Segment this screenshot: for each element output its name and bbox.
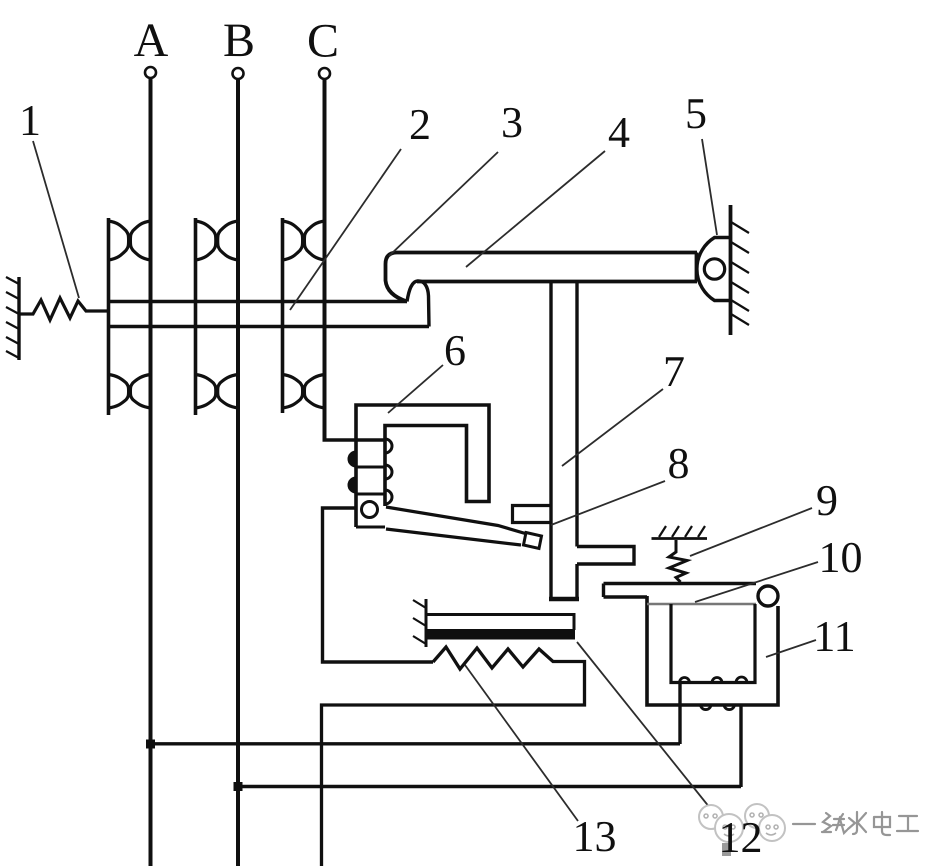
spring 1 [19,298,108,320]
latch notch on link [513,506,552,523]
trip lever pivot pin [758,586,778,606]
spring 9 anchor hatching [659,526,705,537]
contact bar phase A [107,218,111,415]
wire B to release coil [238,785,741,788]
main contact A upper [109,221,151,260]
svg-text:4: 4 [608,108,630,157]
coil terminal left [678,683,681,745]
link 7 right line upper [575,282,578,547]
left wall anchor [17,277,20,360]
svg-text:12: 12 [719,813,763,862]
svg-text:3: 3 [501,98,523,147]
leader line 13 [465,665,578,821]
leader line 4 [466,151,605,267]
coil divider 2 [356,493,385,496]
spring 9 anchor line [652,537,708,540]
leader line 6 [388,365,443,413]
armature 8 tip [524,533,542,549]
wire A to release coil [151,742,681,745]
coil bottom cap [356,526,385,529]
svg-text:A: A [134,14,169,67]
coil left turns [349,452,356,492]
main contact B lower [196,375,239,409]
svg-text:5: 5 [685,89,707,138]
leader line 11 [766,640,816,657]
link 7 T bar [577,547,634,565]
right wall hatching [731,222,749,325]
lever 4 end cap [695,253,699,282]
leader line 8 [551,481,665,525]
heater 13 resistor and return wire [322,647,585,866]
node B terminal [233,68,244,79]
bimetal 12 clamp [425,599,428,647]
leader line 3 [389,152,498,256]
bimetal 12 top layer [426,615,574,631]
svg-text:8: 8 [668,439,690,488]
pivot 5 bracket [697,238,730,301]
leader line 1 [33,141,79,298]
lever 4 bottom edge [417,280,697,284]
leader line 10 [695,562,818,602]
coil terminal right [739,705,742,787]
svg-text:2: 2 [409,100,431,149]
crossbar rod 3 top edge [107,300,407,304]
trip lever 10 bar [604,584,757,598]
node C terminal [319,68,330,79]
main contact B upper [196,221,239,260]
crossbar hook [407,281,429,327]
svg-text:13: 13 [573,812,617,861]
armature 8 bottom edge [386,529,521,545]
leader line 12 [577,642,718,818]
wire phase A line [149,79,153,866]
svg-text:6: 6 [444,326,466,375]
leader line 5 [702,139,717,235]
right wall anchor [729,205,733,335]
link 7 right line lower [575,564,578,599]
release 11 outer frame [647,596,778,705]
coil turns lower [701,705,735,710]
main contact A lower [109,375,151,409]
contact bar phase C [281,218,285,413]
spring 9 [669,540,687,582]
bimetal clamp hatching [413,600,426,644]
svg-text:10: 10 [819,533,863,582]
coil divider 1 [356,466,385,469]
leader line 2 [290,149,401,310]
lever 4 top and left hook [386,253,698,302]
electromagnet 6 core outline [356,405,489,527]
bimetal 12 lower black layer [426,629,575,640]
pivot 5 pin [704,259,724,279]
link 7 left line [549,282,552,599]
svg-text:C: C [307,15,339,68]
junction dot on B [234,782,243,791]
main contact C upper [283,221,325,260]
link 7 bottom cap [549,597,579,602]
watermark logo [699,804,785,856]
coil right turns [385,439,392,504]
svg-text:B: B [223,14,255,67]
svg-text:7: 7 [663,347,685,396]
wire phase C line [323,80,327,442]
wire C to coil [323,438,386,441]
contact bar phase B [194,218,198,415]
wire coil to heater [323,508,434,662]
armature 8 top edge [386,507,527,534]
coil turns upper [680,677,748,683]
svg-text:11: 11 [813,612,855,661]
svg-text:9: 9 [816,476,838,525]
release 11 inner top edge [647,603,756,605]
svg-text:1: 1 [19,96,41,145]
left wall hatching [6,277,19,358]
crossbar rod 3 bottom edge [107,325,429,329]
main contact C lower [283,375,325,409]
wire phase B line [236,80,240,866]
junction dot on A [146,740,155,749]
watermark text 一线水电工 [793,812,918,835]
node A terminal [145,67,156,78]
release 11 coil frame [671,604,755,683]
leader line 9 [690,508,812,556]
leader line 7 [562,389,663,466]
armature pivot [362,502,378,518]
